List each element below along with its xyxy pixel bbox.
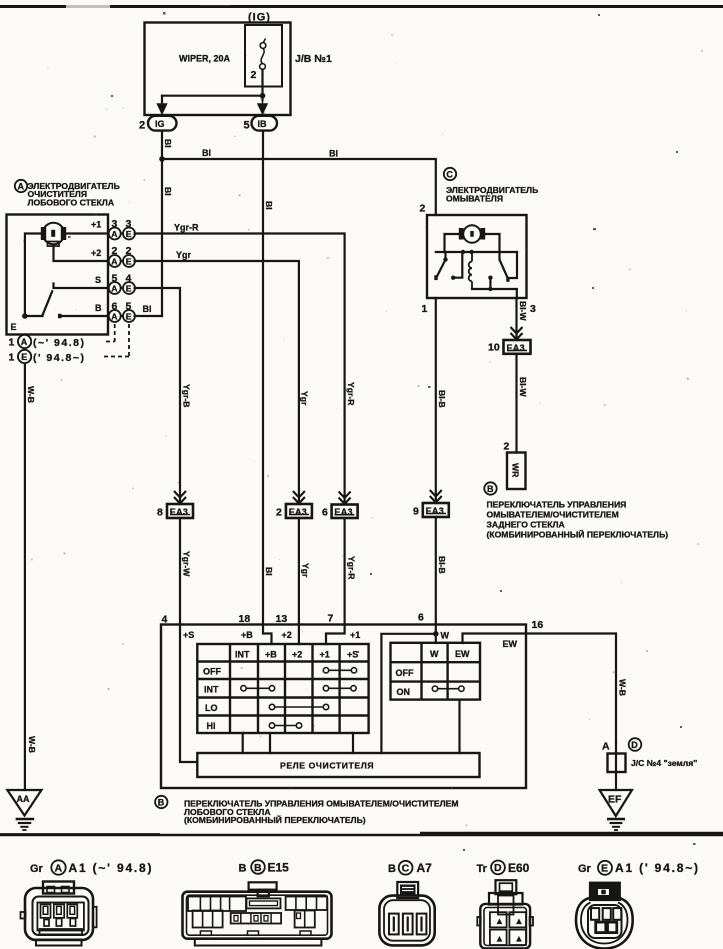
svg-text:EW: EW — [503, 639, 518, 649]
svg-text:BI: BI — [163, 187, 173, 196]
svg-text:Ygr-R: Ygr-R — [347, 556, 357, 580]
svg-text:+2: +2 — [292, 650, 302, 660]
svg-text:W: W — [430, 649, 439, 659]
wiper motor A box — [7, 215, 109, 335]
connector 10 EA3 — [511, 327, 523, 340]
svg-text:D: D — [631, 740, 638, 750]
svg-text:BI: BI — [202, 148, 211, 158]
svg-text:8: 8 — [157, 507, 163, 519]
svg-text:EA3: EA3 — [170, 507, 188, 517]
svg-text:AA: AA — [17, 794, 30, 804]
wire motor right brush to +1 — [66, 232, 110, 234]
svg-text:4: 4 — [162, 614, 168, 626]
washer pump bottom bar — [472, 288, 517, 290]
svg-text:D: D — [494, 862, 502, 874]
svg-text:E60: E60 — [508, 861, 530, 875]
ground AA — [7, 790, 41, 816]
svg-text:1: 1 — [9, 337, 15, 349]
svg-text:6: 6 — [418, 612, 424, 624]
contacts INT row — [241, 686, 356, 691]
svg-text:+S: +S — [183, 630, 194, 640]
washer pump changeover left arm — [444, 252, 446, 259]
wiper relay box — [197, 753, 479, 777]
component B (rear) label circle — [484, 482, 496, 494]
svg-text:J/C №4 "земля": J/C №4 "земля" — [631, 758, 697, 768]
component B (main) label circle — [155, 796, 167, 808]
contacts OFF row — [323, 668, 356, 673]
contacts HI row — [269, 723, 301, 728]
svg-text:Ygr: Ygr — [301, 563, 311, 578]
connector 2 EA3 — [293, 491, 305, 504]
svg-text:1: 1 — [422, 303, 428, 315]
node fuse output junction — [260, 93, 266, 99]
svg-text:C: C — [402, 863, 410, 875]
frame top border — [0, 5, 723, 8]
bottom connector A drawing — [21, 882, 97, 946]
component C label circle — [444, 168, 456, 180]
svg-text:E: E — [126, 312, 132, 322]
fuse WIPER 20A box — [245, 25, 282, 87]
node W junction — [433, 631, 439, 637]
wire BI from 2(IG) down — [161, 131, 163, 316]
connector 9 EA3 — [430, 490, 442, 503]
frame bottom border — [0, 834, 723, 837]
svg-text:ЛОБОВОГО СТЕКЛА: ЛОБОВОГО СТЕКЛА — [28, 198, 115, 208]
svg-text:OFF: OFF — [203, 667, 221, 677]
wire Ygr-R from +1 — [135, 234, 345, 505]
washer pump free contact — [451, 276, 455, 280]
bottom connector E drawing — [576, 883, 633, 949]
svg-text:(~' 94.8): (~' 94.8) — [33, 337, 85, 349]
connector 6 EA3 — [339, 492, 351, 505]
svg-text:13: 13 — [276, 613, 288, 625]
svg-text:ПЕРЕКЛЮЧАТЕЛЬ УПРАВЛЕНИЯ: ПЕРЕКЛЮЧАТЕЛЬ УПРАВЛЕНИЯ — [487, 500, 627, 510]
svg-text:+1: +1 — [91, 220, 101, 230]
wire motor bottom to +2 — [54, 246, 110, 261]
wire Ygr-W below 8 EA3 — [179, 518, 181, 625]
svg-text:A: A — [602, 741, 610, 753]
svg-text:A: A — [111, 257, 117, 267]
wire Ygr-R below 6 EA3 — [326, 518, 345, 644]
svg-text:W-B: W-B — [618, 679, 628, 696]
svg-text:BI: BI — [329, 149, 338, 159]
svg-text:W: W — [441, 631, 450, 641]
wire +S internal to relay — [180, 625, 197, 763]
svg-text:E: E — [11, 322, 17, 332]
svg-text:EA3: EA3 — [426, 506, 444, 516]
svg-text:BI-W: BI-W — [518, 377, 528, 397]
svg-text:A1 (' 94.8~): A1 (' 94.8~) — [615, 861, 700, 875]
svg-text:E: E — [126, 257, 132, 267]
arrow into 2(IG) — [158, 96, 167, 114]
svg-text:B: B — [487, 484, 494, 494]
wire W-B left ground rail — [24, 335, 26, 791]
svg-text:EW: EW — [455, 649, 470, 659]
svg-text:(IG): (IG) — [248, 12, 271, 24]
wire BI from 5(IB) down to switch pin 18 — [263, 131, 272, 644]
svg-text:BI: BI — [264, 567, 274, 576]
svg-text:INT: INT — [235, 650, 250, 660]
bottom connector D drawing — [477, 880, 533, 948]
svg-text:IB: IB — [258, 119, 268, 129]
washer pump changeover right arm — [500, 260, 508, 279]
bottom connector C drawing — [379, 882, 434, 945]
wire W to relay branch — [381, 634, 435, 753]
svg-text:▲: ▲ — [495, 934, 504, 944]
wire BI-W washer pin3 to 10 EA3 — [515, 298, 517, 340]
svg-text:B: B — [388, 863, 396, 875]
wire EW to pin 16 and ground — [463, 634, 617, 743]
wiper motor M symbol — [43, 223, 65, 245]
svg-text:EF: EF — [608, 794, 622, 806]
svg-text:IG: IG — [155, 119, 165, 129]
svg-text:HI: HI — [207, 721, 216, 731]
svg-text:BI: BI — [163, 139, 173, 148]
svg-text:6: 6 — [322, 507, 328, 519]
svg-text:РЕЛЕ ОЧИСТИТЕЛЯ: РЕЛЕ ОЧИСТИТЕЛЯ — [280, 761, 374, 771]
svg-text:ЗАДНЕГО СТЕКЛА: ЗАДНЕГО СТЕКЛА — [487, 520, 565, 530]
junction connector J/C No4 box — [615, 743, 617, 754]
svg-text:Tr: Tr — [477, 863, 488, 875]
svg-text:2: 2 — [504, 441, 510, 453]
svg-text:ON: ON — [397, 687, 411, 697]
component D label circle — [629, 738, 642, 751]
svg-text:INT: INT — [204, 685, 219, 695]
svg-text:(КОМБИНИРОВАННЫЙ ПЕРЕКЛЮЧАТЕЛЬ: (КОМБИНИРОВАННЫЙ ПЕРЕКЛЮЧАТЕЛЬ) — [487, 529, 669, 540]
wire Ygr-B from S — [135, 288, 180, 504]
svg-text:9: 9 — [413, 506, 419, 518]
svg-text:Ygr-R: Ygr-R — [346, 382, 356, 406]
svg-text:1: 1 — [9, 352, 15, 364]
svg-text:E15: E15 — [268, 861, 290, 875]
svg-text:2: 2 — [139, 120, 145, 132]
component A label circle — [15, 180, 27, 192]
svg-text:7: 7 — [328, 613, 334, 625]
svg-text:BI-B: BI-B — [437, 390, 447, 408]
svg-text:B: B — [158, 798, 165, 808]
svg-text:ОМЫВАТЕЛЯ: ОМЫВАТЕЛЯ — [446, 194, 503, 204]
wire BI-W to WR switch — [515, 354, 517, 453]
svg-text:▲: ▲ — [495, 916, 504, 926]
svg-text:Ygr-R: Ygr-R — [174, 223, 199, 233]
washer motor C box — [427, 215, 527, 298]
svg-text:+B: +B — [241, 630, 253, 640]
arrow into 5(IB) — [258, 96, 267, 114]
svg-text:(' 94.8~): (' 94.8~) — [33, 352, 85, 364]
washer pump coil — [469, 252, 472, 289]
svg-text:A: A — [55, 863, 63, 875]
connector circles A/E rows — [109, 228, 135, 323]
scan specks — [68, 12, 696, 851]
svg-text:▲: ▲ — [515, 916, 524, 926]
svg-text:5: 5 — [244, 120, 250, 132]
svg-text:E: E — [126, 229, 132, 239]
svg-text:W-B: W-B — [27, 736, 37, 753]
svg-text:E: E — [601, 863, 608, 875]
wire motor left brush to left rail — [25, 234, 43, 317]
wire B contact — [58, 314, 62, 318]
connector 8 EA3 — [174, 491, 186, 504]
wire BI-B washer pin1 down to 9 EA3 and pin 6 — [435, 298, 437, 503]
dashed links to A/E columns — [104, 324, 129, 357]
stub washer table to relay — [458, 700, 460, 753]
svg-text:+1: +1 — [350, 630, 360, 640]
svg-text:A7: A7 — [417, 861, 433, 875]
svg-text:EA3: EA3 — [289, 507, 307, 517]
svg-text:Gr: Gr — [578, 863, 592, 875]
wire junction to left arrow — [162, 95, 263, 97]
svg-text:18: 18 — [239, 613, 251, 625]
svg-text:E: E — [126, 284, 132, 294]
park switch arm — [42, 290, 52, 315]
wiper switch contact table — [197, 644, 368, 733]
svg-text:A: A — [21, 337, 28, 347]
svg-text:+2: +2 — [282, 630, 292, 640]
wire fuse to junction — [261, 70, 263, 101]
svg-text:BI: BI — [264, 201, 274, 210]
svg-text:2: 2 — [420, 203, 426, 215]
svg-text:3: 3 — [530, 303, 536, 315]
svg-text:BI: BI — [143, 304, 152, 314]
svg-text:BI-W: BI-W — [518, 301, 528, 321]
svg-text:B: B — [239, 863, 247, 875]
svg-text:B: B — [254, 862, 262, 874]
svg-text:▲: ▲ — [515, 934, 524, 944]
svg-text:W-B: W-B — [26, 386, 36, 403]
svg-text:LO: LO — [205, 703, 218, 713]
svg-text:S: S — [95, 275, 101, 285]
svg-text:J/B №1: J/B №1 — [295, 53, 332, 65]
svg-text:+2: +2 — [91, 248, 101, 258]
stubs table to relay — [242, 733, 244, 753]
bottom connector B drawing — [183, 882, 332, 945]
ground EF — [600, 790, 633, 816]
svg-text:A: A — [111, 229, 117, 239]
svg-text:+1: +1 — [320, 650, 330, 660]
svg-text:Ygr: Ygr — [300, 391, 310, 406]
svg-text:E: E — [21, 352, 27, 362]
svg-text:A1 (~' 94.8): A1 (~' 94.8) — [69, 861, 154, 875]
svg-text:A: A — [18, 182, 25, 192]
washer motor M symbol — [463, 225, 481, 243]
svg-text:C: C — [446, 170, 453, 180]
washer switch table — [391, 643, 481, 700]
svg-text:16: 16 — [532, 619, 544, 631]
wire S contact — [54, 284, 110, 289]
svg-text:A: A — [111, 312, 117, 322]
contacts LO row — [269, 704, 328, 709]
svg-text:Ygr: Ygr — [176, 250, 192, 260]
node bus junction — [159, 156, 165, 162]
wire Ygr from +2 — [135, 261, 299, 504]
svg-text:BI-B: BI-B — [437, 556, 447, 574]
svg-text:(КОМБИНИРОВАННЫЙ ПЕРЕКЛЮЧАТЕЛЬ: (КОМБИНИРОВАННЫЙ ПЕРЕКЛЮЧАТЕЛЬ) — [184, 814, 366, 825]
svg-text:OFF: OFF — [396, 668, 414, 678]
wire Ygr below 2 EA3 — [298, 518, 300, 644]
fuse WIPER 20A symbol — [260, 39, 266, 70]
svg-text:+S: +S — [347, 650, 358, 660]
svg-text:+B: +B — [265, 650, 277, 660]
svg-text:Ygr-W: Ygr-W — [182, 551, 192, 577]
svg-text:Gr: Gr — [30, 863, 44, 875]
wire washer pin 3 exit — [516, 289, 518, 298]
wire BI bus to washer motor — [162, 159, 436, 215]
contacts ON row — [432, 686, 464, 691]
svg-text:2: 2 — [276, 507, 282, 519]
junction block J/B No1 box — [145, 23, 291, 116]
svg-text:WIPER, 20A: WIPER, 20A — [179, 54, 231, 64]
washer motor internal wiring — [445, 234, 461, 252]
svg-text:ОМЫВАТЕЛЕМ/ОЧИСТИТЕЛЕМ: ОМЫВАТЕЛЕМ/ОЧИСТИТЕЛЕМ — [487, 510, 619, 520]
rear washer switch WR box — [507, 453, 526, 490]
combination switch outer box — [161, 625, 526, 789]
svg-text:WR: WR — [511, 463, 521, 478]
wire BI from B joins IG rail — [135, 315, 162, 317]
svg-text:B: B — [95, 303, 102, 313]
wire to EF ground — [615, 772, 617, 790]
node park switch pivot — [22, 313, 28, 319]
svg-text:10: 10 — [488, 342, 500, 354]
svg-text:Ygr-B: Ygr-B — [182, 384, 192, 407]
svg-text:2: 2 — [251, 69, 257, 81]
svg-text:A: A — [111, 284, 117, 294]
svg-text:EA3: EA3 — [507, 343, 525, 353]
